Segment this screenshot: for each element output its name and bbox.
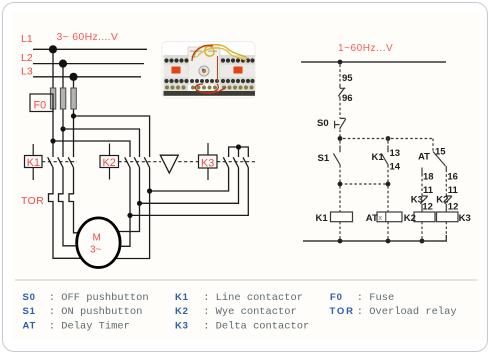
svg-text:L1: L1 [21, 33, 33, 45]
node L3 junction [69, 73, 77, 81]
motor M 3~ [77, 218, 120, 268]
svg-text:K3: K3 [459, 213, 471, 224]
K3 pole 2 contact [233, 157, 238, 167]
wire dashed feed to overload contact [339, 65, 341, 85]
fuse F0 pole 2 [60, 88, 65, 109]
node AT coil bottom [386, 239, 391, 244]
coil K2 [414, 212, 435, 222]
svg-text:11: 11 [448, 185, 459, 196]
wire dashed S1 to node C [339, 165, 341, 182]
node phase3 branch [71, 113, 76, 118]
svg-text:: Delay Timer: : Delay Timer [49, 321, 130, 333]
fuse label box F0 [30, 94, 53, 112]
wire dashed to S0 [339, 98, 341, 118]
K3 shorting bracket [229, 147, 249, 157]
node L2 junction [59, 60, 67, 68]
svg-text:K2: K2 [175, 306, 189, 317]
svg-text:13: 13 [390, 148, 401, 159]
svg-text:L3: L3 [21, 66, 33, 78]
overload relay TOR heater 3 + wire to motor [69, 168, 79, 233]
wire control top line [301, 61, 446, 63]
terminal rows bottom brass [165, 86, 254, 90]
svg-text:AT: AT [418, 152, 430, 163]
wire dashed node C to node D [340, 183, 388, 185]
svg-text:18: 18 [423, 171, 434, 182]
coil K3 [437, 212, 459, 222]
svg-text:K3: K3 [175, 321, 189, 332]
contact K2 interlock NC [445, 196, 452, 212]
overload NC contact 95-96 [338, 84, 345, 98]
svg-text:K3: K3 [201, 157, 214, 169]
K3 pole 3 contact [243, 157, 248, 167]
K1 pole 3 contact [68, 157, 73, 167]
wire L2 horizontal [33, 63, 144, 65]
node K2 pole2 / K3 link [137, 201, 142, 206]
control labels [316, 73, 471, 224]
red wire loop bottom [195, 84, 226, 93]
wire dashed node A to AT corner [343, 139, 433, 152]
svg-text:11: 11 [423, 185, 434, 196]
red button right [234, 67, 243, 74]
left contactor body [164, 55, 189, 91]
yellow wire arcs [194, 45, 247, 58]
K2 pole 3 contact [144, 157, 149, 167]
svg-text:: Wye contactor: : Wye contactor [203, 306, 297, 318]
photo background [162, 42, 255, 99]
contactor K3 box [199, 143, 218, 180]
wire phase 3 vertical drop [73, 77, 75, 157]
node K2 pole3 / K3 link [147, 188, 152, 193]
node A (after S0) [338, 136, 343, 141]
wire K2 pole1 to K3 pole3 [130, 168, 248, 216]
wire L3 horizontal [33, 76, 141, 78]
wire branch 16 [445, 166, 447, 170]
overload relay TOR heater 2 + wire to motor [59, 168, 77, 246]
wire K2 pole3 to K3 pole1 [150, 168, 229, 192]
K2 pole 2 contact [134, 157, 139, 167]
timer top details [190, 51, 202, 52]
right contactor body [220, 55, 255, 91]
delta symbol triangle [160, 155, 178, 173]
wire AT coil top lead [387, 186, 389, 212]
wire branch from phase2 to K2 pole 2 [63, 129, 140, 157]
wire L1 horizontal [33, 48, 147, 50]
contactor K2 box [100, 144, 119, 180]
svg-text:: Line contactor: : Line contactor [203, 292, 303, 304]
node phase2 branch [60, 126, 65, 131]
svg-text:: Overload relay: : Overload relay [357, 306, 457, 318]
K2 pole 1 contact [125, 157, 130, 167]
svg-text:1~60Hz...V: 1~60Hz...V [338, 43, 393, 54]
svg-text:K3: K3 [411, 195, 423, 206]
wire K3 coil bottom lead [445, 222, 447, 236]
svg-text:K1: K1 [27, 157, 40, 169]
svg-text:95: 95 [342, 73, 353, 84]
svg-text:3~ 60Hz....V: 3~ 60Hz....V [57, 31, 119, 43]
node K1 coil bottom [338, 239, 343, 244]
node K2 pole1 / K3 link [127, 213, 132, 218]
svg-text:L2: L2 [21, 52, 33, 64]
contactor K1 box [25, 144, 43, 180]
svg-text:TOR: TOR [330, 306, 355, 317]
wire K2 pole2 to K3 pole2 [140, 168, 239, 204]
K1 pole 1 contact [48, 157, 53, 167]
svg-text:S1: S1 [23, 306, 36, 317]
wire dashed S0 to node A [339, 130, 341, 137]
K3 pole 1 contact [223, 157, 228, 167]
svg-text:F0: F0 [330, 292, 343, 303]
svg-text:K1: K1 [175, 292, 189, 303]
svg-text:TOR: TOR [21, 196, 44, 207]
svg-text:x: x [379, 215, 383, 222]
svg-text:: ON pushbutton: : ON pushbutton [49, 306, 143, 318]
node B (K1 branch top) [386, 136, 391, 141]
terminal rows bottom dark [164, 79, 254, 83]
svg-text:: Fuse: : Fuse [357, 292, 394, 304]
K1 pole 2 contact [58, 157, 63, 167]
wire K1 coil bottom lead [339, 222, 341, 240]
wire K2 coil bottom lead [421, 222, 423, 240]
svg-text:S0: S0 [317, 118, 329, 129]
svg-text:K2: K2 [404, 213, 416, 224]
svg-text:: Delta contactor: : Delta contactor [203, 321, 309, 333]
wire phase 1 vertical drop [52, 49, 54, 157]
coil AT (timer) [377, 212, 402, 222]
wire K2 pole2 down to motor right [118, 168, 140, 232]
fuse F0 pole 3 [71, 88, 76, 109]
fuse F0 pole 1 [50, 88, 55, 109]
svg-text:K1: K1 [316, 213, 329, 224]
wire K2 pole1 down to motor right [120, 168, 130, 247]
pushbutton S0 NC contact [335, 118, 346, 128]
timer AT changeover contact 15-16-18 [433, 152, 446, 167]
middle timer body [188, 47, 220, 84]
red wire right edge of timer [217, 56, 219, 83]
wire K1 coil top lead [339, 186, 341, 212]
svg-text:12: 12 [448, 202, 459, 213]
node K3 bracket [236, 144, 241, 149]
node control feed [338, 60, 343, 65]
svg-text:AT: AT [366, 213, 378, 224]
wire branch from phase1 to K2 pole 1 [53, 141, 130, 157]
node L1 junction [49, 45, 57, 53]
svg-text:K1: K1 [372, 152, 385, 163]
timer dial [199, 66, 209, 76]
node K2 coil bottom [420, 239, 425, 244]
wire branch 18 [421, 168, 423, 175]
contact K1 aux 13-14 [387, 141, 389, 146]
svg-text:96: 96 [342, 93, 353, 104]
K2 linkage dashes [119, 161, 162, 163]
svg-text:16: 16 [447, 171, 458, 182]
svg-text:K2: K2 [436, 195, 448, 206]
wire AT coil bottom lead [387, 222, 389, 240]
contact K3 interlock NC [420, 196, 427, 212]
wire control bottom line [303, 235, 446, 241]
dark base strip [164, 91, 256, 96]
svg-text:S1: S1 [318, 153, 330, 164]
divider line [15, 279, 477, 281]
svg-text:15: 15 [435, 146, 446, 157]
svg-text:AT: AT [23, 321, 37, 332]
coil K1 [331, 212, 353, 222]
svg-text:F0: F0 [34, 100, 47, 112]
contactor white bands [164, 65, 189, 78]
terminal rows top [164, 58, 254, 62]
wire phase 2 vertical drop [62, 64, 64, 157]
node phase1 branch [50, 138, 55, 143]
svg-text:M: M [93, 233, 101, 244]
node C [338, 182, 343, 187]
node D [386, 182, 391, 187]
svg-text:3~: 3~ [90, 245, 102, 256]
red button left [172, 67, 181, 74]
pushbutton S1 NO contact [339, 141, 341, 146]
overload relay TOR heater 1 + wire to motor [49, 168, 82, 259]
linkage dashes triangle to K3 box [178, 161, 198, 163]
svg-text:K2: K2 [103, 157, 116, 169]
svg-text:S0: S0 [23, 292, 36, 303]
wire K2 pole3 down to motor right [115, 168, 149, 259]
svg-text:14: 14 [390, 161, 401, 172]
K3 linkage dashes [217, 161, 256, 163]
wire dashed K1 aux to node D [387, 165, 389, 182]
red wire arc top [192, 45, 213, 61]
wire branch from phase3 to K2 pole 3 [74, 116, 150, 157]
K1 linkage dashes [42, 161, 77, 163]
svg-text:: OFF pushbutton: : OFF pushbutton [49, 292, 149, 304]
svg-text:12: 12 [422, 202, 433, 213]
